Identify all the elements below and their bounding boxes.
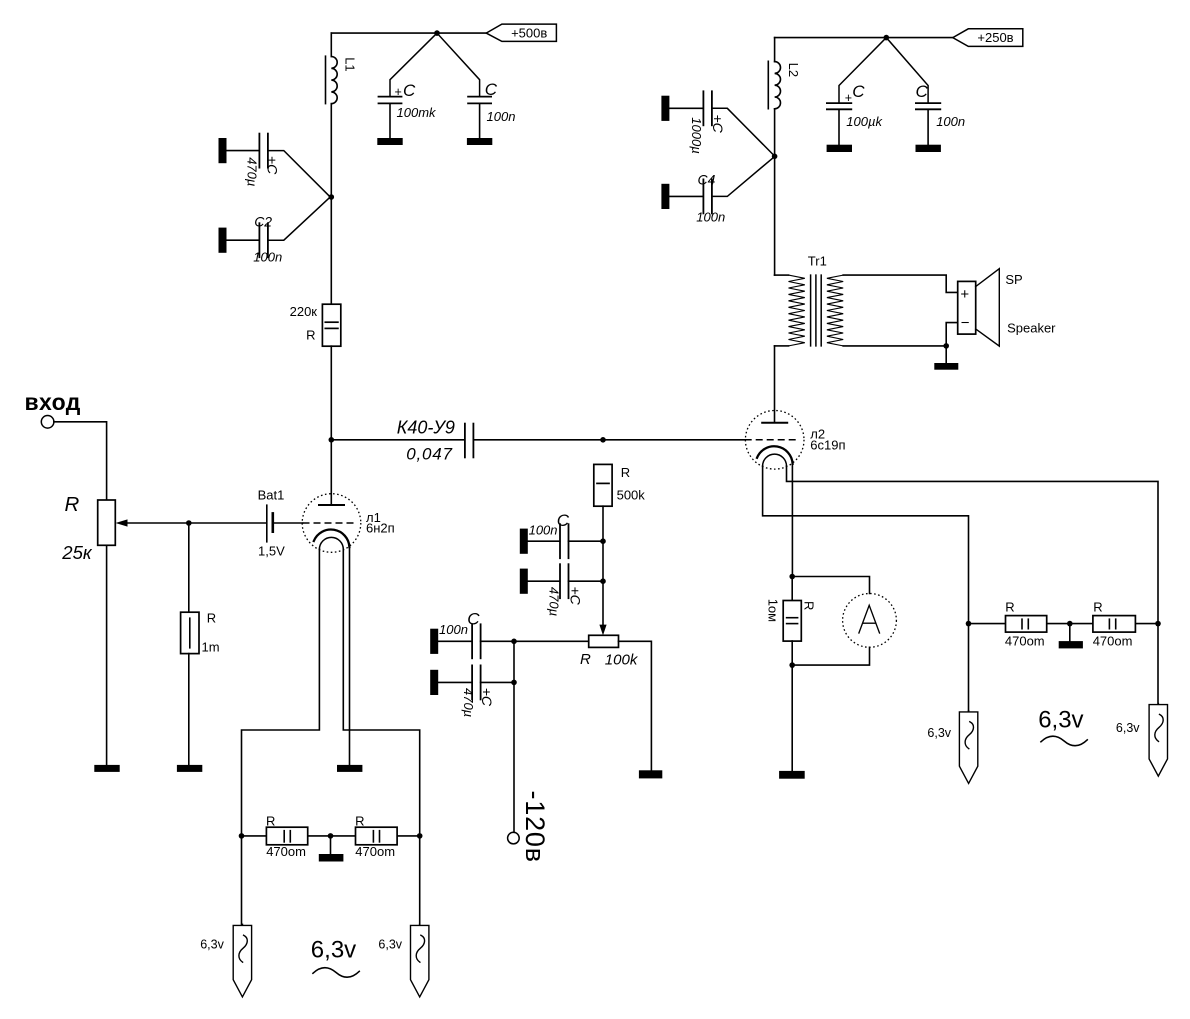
svg-text:100n: 100n (487, 109, 516, 124)
svg-text:Tr1: Tr1 (808, 253, 827, 268)
svg-text:6,3v: 6,3v (311, 937, 356, 964)
svg-text:100mk: 100mk (397, 105, 438, 120)
svg-text:+: + (395, 85, 402, 99)
svg-text:470µ: 470µ (244, 157, 259, 186)
svg-text:R: R (621, 465, 630, 480)
svg-text:−: − (961, 315, 970, 332)
svg-text:SP: SP (1005, 272, 1022, 287)
svg-text:R: R (355, 814, 364, 829)
svg-text:+C: +C (479, 688, 495, 707)
svg-text:+500в: +500в (511, 26, 547, 41)
svg-text:+C: +C (710, 115, 726, 134)
svg-text:+C: +C (264, 156, 280, 175)
svg-text:L2: L2 (786, 63, 801, 77)
svg-text:100n: 100n (439, 622, 468, 637)
svg-text:6,3v: 6,3v (1038, 706, 1083, 733)
svg-text:6с19п: 6с19п (810, 437, 845, 452)
svg-text:100n: 100n (253, 250, 282, 265)
svg-text:470om: 470om (266, 844, 306, 859)
svg-text:470µ: 470µ (546, 587, 561, 616)
svg-text:C: C (485, 80, 498, 99)
svg-text:470om: 470om (1093, 634, 1133, 649)
svg-text:100µk: 100µk (846, 114, 883, 129)
svg-text:C: C (852, 82, 865, 101)
svg-text:R: R (266, 814, 275, 829)
svg-text:6,3v: 6,3v (927, 726, 951, 740)
svg-text:6,3v: 6,3v (200, 938, 224, 952)
svg-text:25к: 25к (61, 542, 93, 563)
svg-text:6н2п: 6н2п (366, 520, 395, 535)
svg-text:К40-У9: К40-У9 (397, 418, 455, 438)
svg-text:100k: 100k (605, 652, 639, 669)
svg-text:R: R (65, 493, 80, 516)
svg-text:вход: вход (25, 389, 81, 415)
svg-text:C: C (557, 511, 570, 530)
svg-text:R: R (802, 601, 817, 610)
svg-text:R: R (1093, 600, 1102, 615)
svg-text:1,5V: 1,5V (258, 543, 285, 558)
svg-text:R: R (1005, 600, 1014, 615)
svg-text:470µ: 470µ (461, 688, 476, 717)
svg-text:R: R (207, 611, 216, 626)
svg-text:R: R (306, 327, 315, 342)
svg-text:+C: +C (568, 587, 584, 606)
svg-text:C2: C2 (254, 213, 272, 229)
svg-text:500k: 500k (617, 487, 646, 502)
svg-text:C: C (916, 82, 929, 101)
svg-text:470om: 470om (1005, 634, 1045, 649)
svg-text:1000µ: 1000µ (689, 117, 704, 153)
svg-text:1ом: 1ом (765, 599, 780, 622)
svg-text:Speaker: Speaker (1007, 320, 1056, 335)
svg-text:Bat1: Bat1 (258, 488, 285, 503)
svg-text:220к: 220к (290, 304, 318, 319)
svg-text:100n: 100n (696, 210, 725, 225)
svg-text:C: C (467, 610, 480, 629)
svg-text:+: + (845, 91, 852, 105)
svg-text:0,047: 0,047 (406, 445, 453, 464)
svg-text:6,3v: 6,3v (378, 938, 402, 952)
svg-text:L1: L1 (343, 57, 358, 71)
svg-text:+250в: +250в (977, 30, 1013, 45)
svg-text:-120в: -120в (520, 791, 550, 863)
svg-text:R: R (580, 651, 591, 668)
svg-text:470om: 470om (355, 844, 395, 859)
svg-text:+: + (960, 286, 969, 303)
svg-text:100n: 100n (936, 114, 965, 129)
svg-text:C: C (403, 81, 416, 100)
svg-text:100n: 100n (529, 522, 558, 537)
svg-text:6,3v: 6,3v (1116, 721, 1140, 735)
svg-text:1m: 1m (202, 639, 220, 654)
svg-text:C4: C4 (698, 172, 716, 188)
